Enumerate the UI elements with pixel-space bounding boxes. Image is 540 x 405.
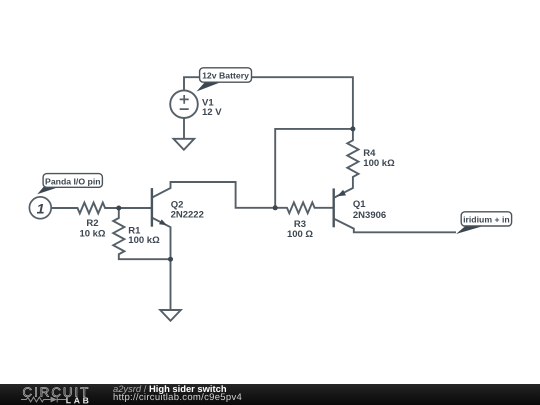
svg-text:12 V: 12 V (202, 107, 222, 118)
svg-text:100 kΩ: 100 kΩ (128, 235, 160, 246)
svg-text:2N2222: 2N2222 (171, 209, 204, 220)
svg-text:2N3906: 2N3906 (353, 210, 386, 221)
svg-text:10 kΩ: 10 kΩ (79, 228, 105, 239)
svg-text:100 kΩ: 100 kΩ (363, 158, 395, 169)
svg-text:iridium + in: iridium + in (463, 214, 510, 224)
svg-text:Q1: Q1 (353, 199, 366, 210)
svg-text:12v Battery: 12v Battery (202, 70, 249, 80)
svg-text:LAB: LAB (66, 395, 92, 405)
svg-text:Panda I/O pin: Panda I/O pin (45, 177, 101, 187)
svg-text:100 Ω: 100 Ω (287, 229, 313, 240)
svg-text:1: 1 (37, 201, 45, 217)
